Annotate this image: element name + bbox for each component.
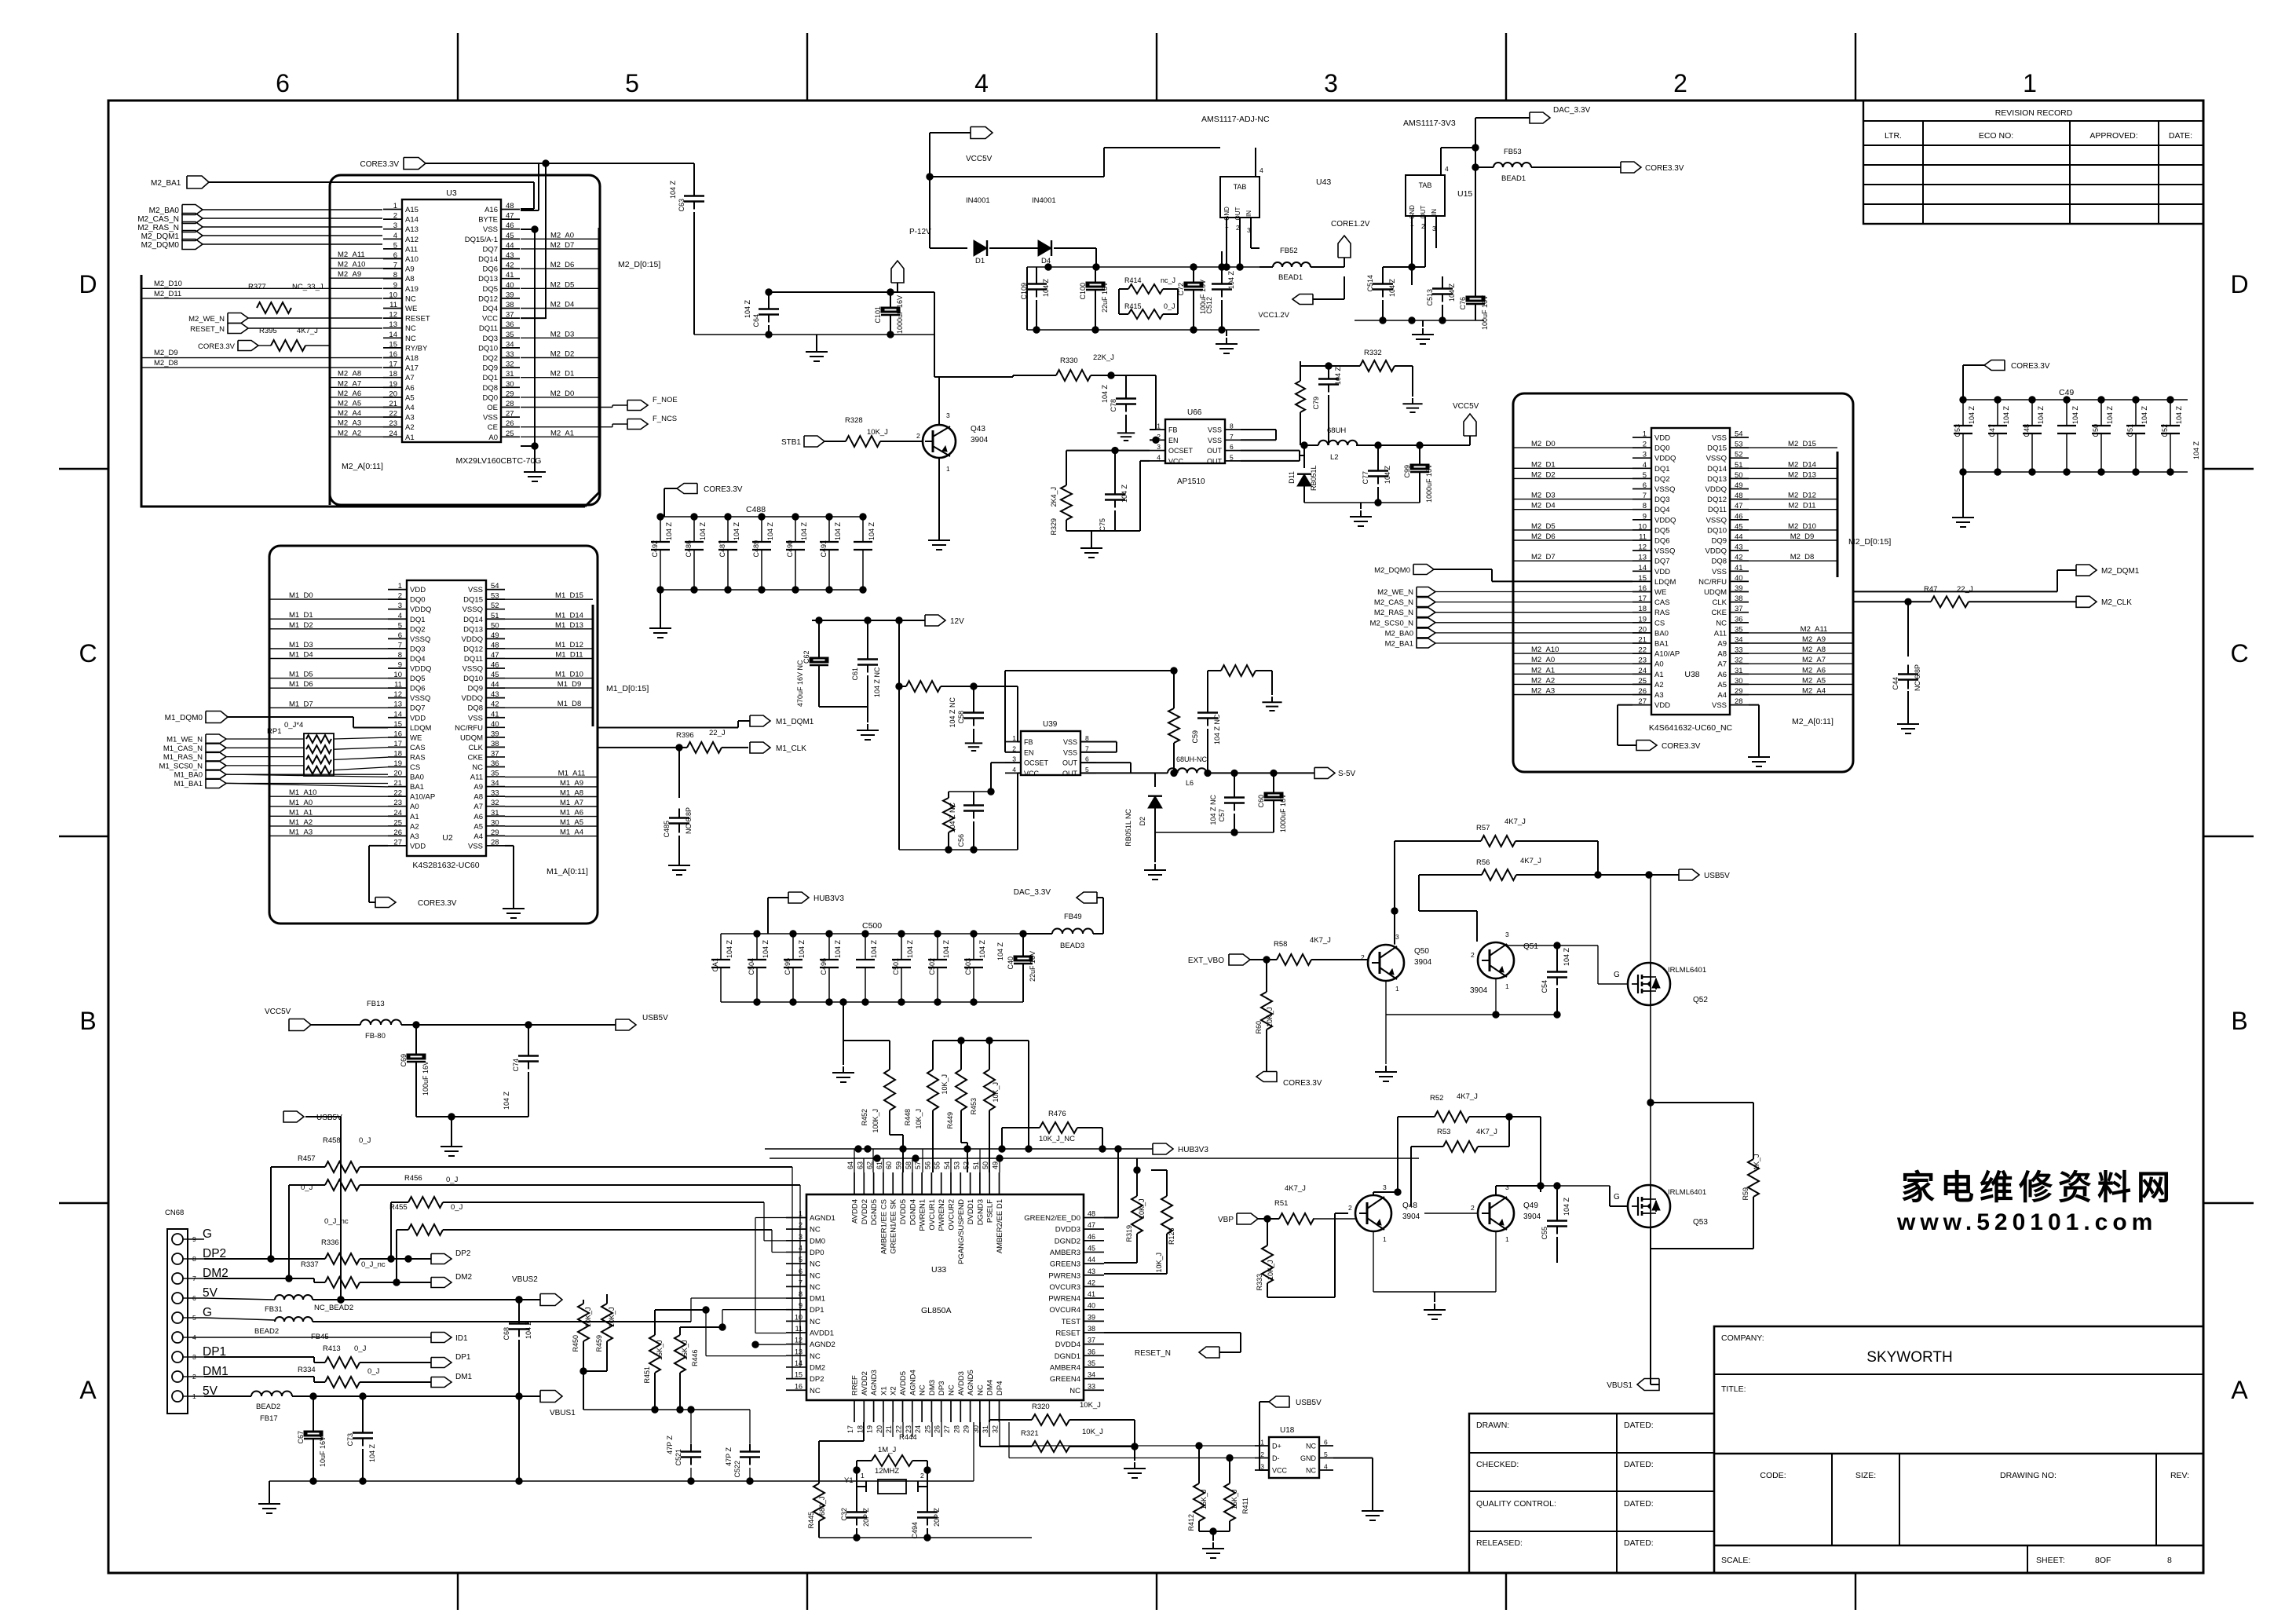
- svg-text:M2_DQM0: M2_DQM0: [141, 241, 180, 250]
- svg-text:B: B: [2231, 1007, 2247, 1035]
- svg-text:M2_A9: M2_A9: [1802, 635, 1826, 644]
- svg-text:DP2: DP2: [810, 1375, 824, 1384]
- svg-text:53: 53: [1735, 441, 1743, 449]
- svg-text:DATED:: DATED:: [1624, 1460, 1654, 1469]
- flag VBUS1 right: [1637, 1379, 1659, 1391]
- svg-text:7: 7: [398, 641, 402, 649]
- svg-text:D+: D+: [1272, 1443, 1281, 1450]
- svg-text:A8: A8: [473, 793, 483, 802]
- svg-text:AVDD5: AVDD5: [899, 1371, 908, 1395]
- transistor Q48 3904: [1355, 1195, 1391, 1231]
- wire C56 R bottom rail: [949, 791, 991, 792]
- svg-text:QUALITY CONTROL:: QUALITY CONTROL:: [1476, 1499, 1556, 1509]
- svg-text:10K_J: 10K_J: [1267, 1260, 1274, 1280]
- svg-text:U18: U18: [1280, 1426, 1295, 1435]
- svg-text:M2_A10: M2_A10: [1531, 646, 1559, 654]
- svg-text:DQ11: DQ11: [464, 655, 483, 664]
- resistor R329 2K4_J: [1061, 485, 1072, 520]
- svg-text:WE: WE: [1654, 588, 1666, 597]
- svg-text:0_J_nc: 0_J_nc: [324, 1217, 349, 1226]
- wire Q50 Q51 emitters: [1385, 981, 1387, 1015]
- svg-text:47P Z: 47P Z: [666, 1436, 674, 1454]
- svg-text:M2_D4: M2_D4: [550, 301, 575, 309]
- svg-text:CA1: CA1: [711, 958, 719, 972]
- group border U3 module: [330, 175, 600, 505]
- svg-text:A10: A10: [405, 255, 419, 264]
- wire U66 outputs: [1241, 429, 1276, 430]
- svg-text:Q48: Q48: [1402, 1202, 1417, 1210]
- svg-text:DM2: DM2: [810, 1363, 825, 1372]
- svg-text:30: 30: [1735, 677, 1743, 686]
- flag M2_DQM0 right module: [1413, 565, 1434, 575]
- svg-text:56: 56: [923, 1161, 931, 1169]
- svg-text:1: 1: [2023, 69, 2037, 97]
- svg-text:59: 59: [895, 1161, 903, 1169]
- flag DP2 cn68: [431, 1254, 452, 1264]
- svg-text:100uF 16V: 100uF 16V: [422, 1061, 430, 1095]
- svg-text:DQ10: DQ10: [1707, 526, 1727, 535]
- wire U3 VSS ground: [521, 229, 535, 230]
- svg-text:DQ0: DQ0: [1654, 444, 1670, 453]
- inductor L2 68UH: [1318, 441, 1358, 445]
- svg-text:C77: C77: [1362, 471, 1369, 485]
- svg-text:EN: EN: [1024, 748, 1034, 756]
- diode D2 RB051L NC: [1154, 773, 1156, 787]
- capacitor C32 20P Z: [856, 1487, 857, 1505]
- wire R330 to FB: [1111, 375, 1156, 376]
- wire bottom rail extension: [691, 1480, 974, 1482]
- capacitor C61 104 Z NC: [867, 620, 868, 652]
- svg-text:OCSET: OCSET: [1024, 759, 1049, 767]
- inductor BEAD2 FB17: [251, 1392, 292, 1396]
- svg-text:VDD: VDD: [410, 714, 426, 722]
- svg-text:R51: R51: [1274, 1199, 1288, 1208]
- svg-text:104 Z: 104 Z: [766, 521, 774, 540]
- wires U38 left data: [1513, 447, 1632, 448]
- wire DM2 channel: [705, 1310, 707, 1356]
- group border U38 module: [1513, 393, 1853, 772]
- svg-text:FB49: FB49: [1064, 913, 1082, 921]
- flag M2_WE_N: [228, 313, 248, 324]
- svg-text:47: 47: [1088, 1221, 1095, 1229]
- svg-text:104 Z: 104 Z: [870, 939, 878, 958]
- wire C62 C61 bottom: [819, 706, 868, 708]
- svg-text:Q43: Q43: [971, 425, 985, 433]
- svg-text:G: G: [1614, 971, 1620, 979]
- wires U33 right to nets: [1104, 1217, 1118, 1219]
- svg-text:20: 20: [393, 770, 402, 778]
- flags M1 control: [206, 734, 226, 744]
- svg-text:VSSQ: VSSQ: [1706, 455, 1727, 463]
- svg-text:2: 2: [1471, 1204, 1475, 1212]
- svg-text:M2_D0: M2_D0: [1531, 440, 1556, 448]
- svg-text:C495: C495: [784, 958, 792, 975]
- svg-text:VDDQ: VDDQ: [1706, 485, 1727, 494]
- svg-text:C491: C491: [820, 540, 828, 558]
- svg-text:FB53: FB53: [1504, 148, 1522, 156]
- svg-text:37: 37: [1735, 605, 1743, 613]
- svg-text:40: 40: [506, 281, 514, 290]
- svg-text:DQ0: DQ0: [410, 596, 426, 605]
- svg-text:3: 3: [946, 411, 950, 419]
- power flag VCC5V row2: [1469, 436, 1471, 445]
- ground U18: [1372, 1505, 1373, 1511]
- svg-text:OUT: OUT: [1207, 447, 1223, 455]
- flag VBUS2: [540, 1294, 562, 1306]
- ground C58: [973, 738, 974, 743]
- svg-text:A10/AP: A10/AP: [1654, 650, 1680, 659]
- svg-text:4: 4: [1157, 453, 1161, 461]
- svg-text:M2_D13: M2_D13: [1788, 470, 1816, 479]
- svg-text:R451: R451: [643, 1366, 651, 1384]
- svg-text:104 Z: 104 Z: [1042, 278, 1050, 297]
- svg-text:A11: A11: [1714, 629, 1727, 638]
- svg-text:M1_D3: M1_D3: [289, 641, 313, 649]
- svg-text:A5: A5: [405, 393, 415, 402]
- svg-text:104 Z: 104 Z: [2141, 405, 2148, 424]
- svg-text:10: 10: [795, 1313, 803, 1321]
- inductor FB52 BEAD1: [1273, 262, 1311, 267]
- svg-text:CKE: CKE: [1711, 609, 1727, 617]
- svg-text:M2_RAS_N: M2_RAS_N: [1374, 609, 1413, 617]
- svg-text:DATED:: DATED:: [1624, 1421, 1654, 1430]
- svg-text:VCC1.2V: VCC1.2V: [1258, 311, 1289, 320]
- svg-text:ID1: ID1: [455, 1334, 468, 1343]
- svg-text:51: 51: [972, 1161, 980, 1169]
- svg-text:C78: C78: [1110, 399, 1117, 412]
- svg-text:U43: U43: [1316, 177, 1331, 187]
- svg-text:11: 11: [1639, 533, 1647, 542]
- wire A16 pin48: [521, 210, 539, 211]
- svg-text:R457: R457: [298, 1154, 316, 1163]
- svg-text:104 Z: 104 Z: [2037, 405, 2045, 424]
- svg-text:104 Z: 104 Z: [868, 521, 876, 540]
- svg-text:R57: R57: [1476, 824, 1490, 832]
- svg-text:M2_D5: M2_D5: [1531, 522, 1556, 531]
- svg-text:DM0: DM0: [810, 1237, 825, 1245]
- svg-text:39: 39: [1735, 584, 1743, 593]
- svg-text:7: 7: [1230, 433, 1234, 441]
- svg-text:VDD: VDD: [1654, 434, 1670, 443]
- bus M2_D left vertical: [141, 275, 585, 507]
- svg-text:R56: R56: [1476, 858, 1490, 867]
- svg-text:CN68: CN68: [165, 1209, 184, 1217]
- ground cn68: [269, 1481, 270, 1498]
- svg-text:C54: C54: [1541, 980, 1548, 993]
- svg-text:NC 6.8P: NC 6.8P: [1914, 664, 1921, 691]
- svg-text:APPROVED:: APPROVED:: [2089, 131, 2137, 141]
- svg-text:10K_J: 10K_J: [915, 1109, 923, 1129]
- svg-text:R336: R336: [321, 1238, 339, 1247]
- svg-text:C61: C61: [851, 668, 859, 681]
- svg-text:NC: NC: [919, 1384, 927, 1395]
- svg-text:33: 33: [491, 789, 499, 798]
- ic U66 AP1510: [1165, 419, 1225, 463]
- wire Q48 Q49 emitters ground: [1373, 1231, 1374, 1292]
- svg-text:104 Z: 104 Z: [1448, 283, 1456, 302]
- svg-text:A5: A5: [473, 822, 483, 831]
- svg-text:C60: C60: [1257, 795, 1265, 808]
- svg-text:A2: A2: [410, 822, 419, 831]
- svg-text:R52: R52: [1430, 1094, 1443, 1103]
- svg-text:35: 35: [1088, 1359, 1095, 1367]
- svg-text:BA0: BA0: [410, 774, 424, 782]
- svg-text:3904: 3904: [1402, 1213, 1420, 1221]
- ground top right U39: [1271, 697, 1273, 702]
- svg-text:3: 3: [1395, 933, 1399, 941]
- svg-text:U66: U66: [1187, 408, 1202, 417]
- svg-text:DGND4: DGND4: [909, 1199, 917, 1225]
- svg-text:BYTE: BYTE: [478, 216, 498, 225]
- svg-text:1: 1: [1157, 422, 1161, 430]
- flag ID1: [204, 1337, 431, 1338]
- wire R412 R411 gnd: [1198, 1521, 1200, 1531]
- capacitor bank C49: [1963, 399, 2188, 401]
- svg-text:10K_J: 10K_J: [1080, 1401, 1101, 1410]
- svg-text:DQ2: DQ2: [1654, 475, 1670, 484]
- svg-text:C494: C494: [911, 1522, 919, 1539]
- svg-text:R337: R337: [301, 1260, 319, 1269]
- svg-text:15K_J: 15K_J: [1200, 1489, 1208, 1509]
- svg-text:C489: C489: [752, 540, 760, 558]
- svg-text:18: 18: [393, 749, 402, 758]
- svg-text:C490: C490: [786, 540, 794, 558]
- wire crystal bottom rail: [818, 1521, 820, 1538]
- svg-text:RESET: RESET: [1055, 1330, 1080, 1338]
- svg-text:NC/RFU: NC/RFU: [1698, 578, 1727, 587]
- svg-text:44: 44: [1088, 1256, 1095, 1264]
- wire 12V down: [898, 620, 900, 686]
- svg-text:CODE:: CODE:: [1760, 1471, 1786, 1480]
- wire U66 VCC: [1140, 460, 1150, 462]
- svg-text:AVDD2: AVDD2: [861, 1371, 869, 1395]
- svg-text:DQ9: DQ9: [482, 364, 498, 373]
- svg-text:M1_DQM1: M1_DQM1: [776, 718, 814, 726]
- svg-text:1000uF 16V: 1000uF 16V: [1425, 464, 1433, 503]
- svg-text:FB52: FB52: [1280, 247, 1298, 255]
- svg-text:IN4001: IN4001: [966, 196, 990, 205]
- svg-text:22uF 16V: 22uF 16V: [1101, 282, 1109, 313]
- svg-text:16: 16: [795, 1382, 803, 1390]
- svg-text:DQ6: DQ6: [1654, 537, 1670, 546]
- svg-text:NC/RFU: NC/RFU: [455, 724, 483, 733]
- svg-text:104 Z: 104 Z: [762, 939, 770, 958]
- wire power rail mid: [1027, 266, 1260, 268]
- svg-text:21: 21: [1638, 636, 1647, 645]
- svg-text:1: 1: [1505, 982, 1509, 990]
- svg-text:DQ0: DQ0: [482, 393, 498, 402]
- svg-text:R126: R126: [1168, 1227, 1175, 1245]
- svg-text:C513: C513: [1426, 289, 1434, 306]
- svg-text:VSSQ: VSSQ: [1654, 485, 1675, 494]
- svg-text:R58: R58: [1274, 940, 1287, 949]
- svg-text:14: 14: [393, 710, 402, 719]
- svg-text:DQ7: DQ7: [410, 704, 426, 713]
- svg-text:TEST: TEST: [1062, 1318, 1080, 1326]
- capacitor bank C500: [721, 933, 1023, 935]
- svg-text:M2_A[0:11]: M2_A[0:11]: [342, 462, 383, 471]
- svg-text:DQ12: DQ12: [463, 645, 483, 653]
- capacitor C63 104 Z: [693, 163, 695, 188]
- wire Q48 collector: [1373, 1192, 1374, 1195]
- capacitor C99 1000uF 16V: [1419, 445, 1420, 459]
- diode D4 IN4001: [1038, 240, 1051, 256]
- svg-text:NC 6.8P: NC 6.8P: [685, 807, 693, 834]
- svg-text:22_J: 22_J: [709, 729, 726, 737]
- svg-text:DAC_3.3V: DAC_3.3V: [1553, 106, 1591, 115]
- wire U39 OCSET: [991, 762, 1021, 763]
- resistor R451 15K_J: [649, 1335, 660, 1373]
- svg-text:DRAWN:: DRAWN:: [1476, 1421, 1509, 1430]
- ground U3: [534, 466, 536, 472]
- svg-text:K4S641632-UC60_NC: K4S641632-UC60_NC: [1649, 723, 1733, 733]
- svg-text:C68: C68: [503, 1327, 510, 1341]
- svg-text:21: 21: [885, 1425, 893, 1433]
- svg-text:C501: C501: [892, 958, 900, 975]
- svg-text:M1_D15: M1_D15: [555, 591, 583, 600]
- svg-text:A: A: [2231, 1376, 2248, 1404]
- svg-text:1: 1: [946, 465, 950, 473]
- svg-text:27: 27: [506, 410, 514, 419]
- svg-text:AMBER1/EE CS: AMBER1/EE CS: [879, 1199, 888, 1254]
- svg-text:DGND2: DGND2: [1055, 1237, 1080, 1245]
- svg-text:DQ12: DQ12: [1707, 496, 1727, 504]
- flag DAC_3.3V: [1530, 112, 1550, 123]
- svg-text:GREEN3: GREEN3: [1050, 1260, 1080, 1269]
- capacitor C522 47P Z: [749, 1410, 751, 1443]
- wire RESET_N: [1104, 1332, 1241, 1333]
- capacitor C74 104 Z: [528, 1025, 529, 1048]
- svg-text:26: 26: [506, 419, 514, 428]
- svg-text:8OF: 8OF: [2095, 1556, 2111, 1565]
- svg-text:DATE:: DATE:: [2169, 131, 2192, 141]
- svg-text:R459: R459: [595, 1335, 603, 1352]
- svg-text:C500: C500: [862, 921, 882, 931]
- bus M2_D right vertical: [598, 228, 601, 492]
- svg-text:M2_D5: M2_D5: [550, 280, 575, 289]
- svg-text:M2_CLK: M2_CLK: [2101, 598, 2132, 607]
- svg-text:CORE3.3V: CORE3.3V: [198, 342, 236, 351]
- svg-text:NC: NC: [405, 294, 416, 303]
- svg-text:104 Z NC: 104 Z NC: [949, 803, 956, 833]
- svg-text:28: 28: [491, 838, 499, 847]
- svg-text:D: D: [2230, 270, 2248, 298]
- wire DM1 to U33: [690, 1298, 692, 1322]
- svg-text:CS: CS: [1654, 619, 1665, 627]
- svg-text:M2_D6: M2_D6: [1531, 532, 1556, 541]
- svg-text:23: 23: [1638, 657, 1647, 665]
- svg-text:3: 3: [398, 602, 402, 610]
- inductor L6 68UH-NC: [1168, 768, 1207, 773]
- svg-text:10K_J: 10K_J: [584, 1307, 592, 1327]
- ground C49 bank: [1962, 472, 1964, 511]
- wire VBUS1 right: [1650, 1272, 1651, 1384]
- svg-text:CAS: CAS: [410, 744, 426, 752]
- capacitor C512 104 Z: [1221, 251, 1223, 276]
- svg-text:36: 36: [1735, 615, 1743, 624]
- svg-text:VBUS2: VBUS2: [512, 1275, 538, 1284]
- svg-text:PWREN4: PWREN4: [1048, 1295, 1080, 1304]
- svg-text:104 Z NC: 104 Z NC: [949, 697, 956, 728]
- svg-text:34: 34: [1088, 1371, 1095, 1379]
- ic U18: [1269, 1437, 1319, 1478]
- flag VBP: [1237, 1213, 1258, 1224]
- power flag CORE1.2V: [1344, 258, 1345, 267]
- svg-text:100K_J: 100K_J: [872, 1109, 879, 1133]
- svg-text:15: 15: [1638, 574, 1647, 583]
- svg-text:M1_RAS_N: M1_RAS_N: [163, 753, 203, 762]
- svg-text:BA0: BA0: [1654, 629, 1669, 638]
- inductor FB13 FB-80: [311, 1024, 360, 1026]
- wire U18 gnd: [1333, 1458, 1373, 1459]
- svg-text:M2_DQM1: M2_DQM1: [141, 232, 180, 241]
- svg-text:C486: C486: [685, 540, 693, 558]
- svg-text:C52: C52: [2161, 424, 2169, 437]
- svg-text:M2_D11: M2_D11: [154, 290, 181, 298]
- svg-text:M2_BA1: M2_BA1: [1385, 640, 1413, 649]
- svg-text:M2_D7: M2_D7: [1531, 553, 1556, 561]
- svg-text:VCC5V: VCC5V: [1453, 402, 1479, 411]
- svg-text:25: 25: [393, 818, 402, 827]
- svg-text:13: 13: [795, 1348, 803, 1355]
- capacitor C494 20P Z: [927, 1487, 928, 1505]
- svg-text:6: 6: [1230, 443, 1234, 451]
- svg-text:57: 57: [914, 1161, 922, 1169]
- wires U38 right data: [1749, 447, 1837, 448]
- svg-text:M2_A8: M2_A8: [338, 370, 361, 379]
- svg-text:DQ15/A-1: DQ15/A-1: [465, 236, 498, 244]
- svg-text:DQ5: DQ5: [482, 285, 498, 294]
- svg-text:1: 1: [861, 1472, 865, 1480]
- svg-text:48: 48: [491, 641, 499, 649]
- svg-text:NC: NC: [810, 1226, 821, 1234]
- svg-text:FB31: FB31: [265, 1305, 283, 1314]
- svg-text:M2_A11: M2_A11: [338, 251, 365, 259]
- svg-text:37: 37: [491, 749, 499, 758]
- mosfet Q52 IRLML6401: [1628, 963, 1670, 1005]
- svg-text:41: 41: [1735, 564, 1743, 572]
- svg-text:SHEET:: SHEET:: [2036, 1556, 2065, 1565]
- svg-text:1: 1: [1643, 430, 1647, 439]
- svg-text:40: 40: [491, 720, 499, 729]
- power flag CORE3.3V: [404, 158, 426, 170]
- ground L2 row: [1360, 503, 1362, 509]
- svg-text:DQ12: DQ12: [478, 294, 498, 303]
- svg-text:3: 3: [1157, 443, 1161, 451]
- wire AVDD1 AGND2: [755, 1344, 786, 1345]
- svg-text:DM2: DM2: [455, 1273, 473, 1282]
- svg-text:M2_A3: M2_A3: [338, 419, 361, 428]
- svg-text:CHECKED:: CHECKED:: [1476, 1460, 1519, 1469]
- svg-text:M2_DQM1: M2_DQM1: [2101, 567, 2140, 576]
- svg-text:31: 31: [506, 370, 514, 379]
- svg-text:M2_A11: M2_A11: [1801, 625, 1828, 634]
- svg-text:104 Z: 104 Z: [1563, 1197, 1570, 1216]
- svg-text:M1_D0: M1_D0: [289, 591, 313, 600]
- svg-text:11: 11: [389, 301, 397, 309]
- svg-text:TAB: TAB: [1419, 181, 1432, 189]
- svg-text:IN: IN: [1431, 209, 1438, 215]
- svg-text:32: 32: [491, 799, 499, 807]
- svg-text:R320: R320: [1032, 1403, 1050, 1411]
- svg-text:OVCUR1: OVCUR1: [928, 1199, 937, 1231]
- wire DP1 to U33: [722, 1310, 723, 1327]
- svg-text:GREEN4: GREEN4: [1050, 1375, 1080, 1384]
- ground R320: [1134, 1462, 1135, 1469]
- svg-text:21: 21: [393, 779, 402, 788]
- svg-text:45: 45: [506, 232, 514, 240]
- svg-text:104 Z: 104 Z: [1121, 484, 1128, 503]
